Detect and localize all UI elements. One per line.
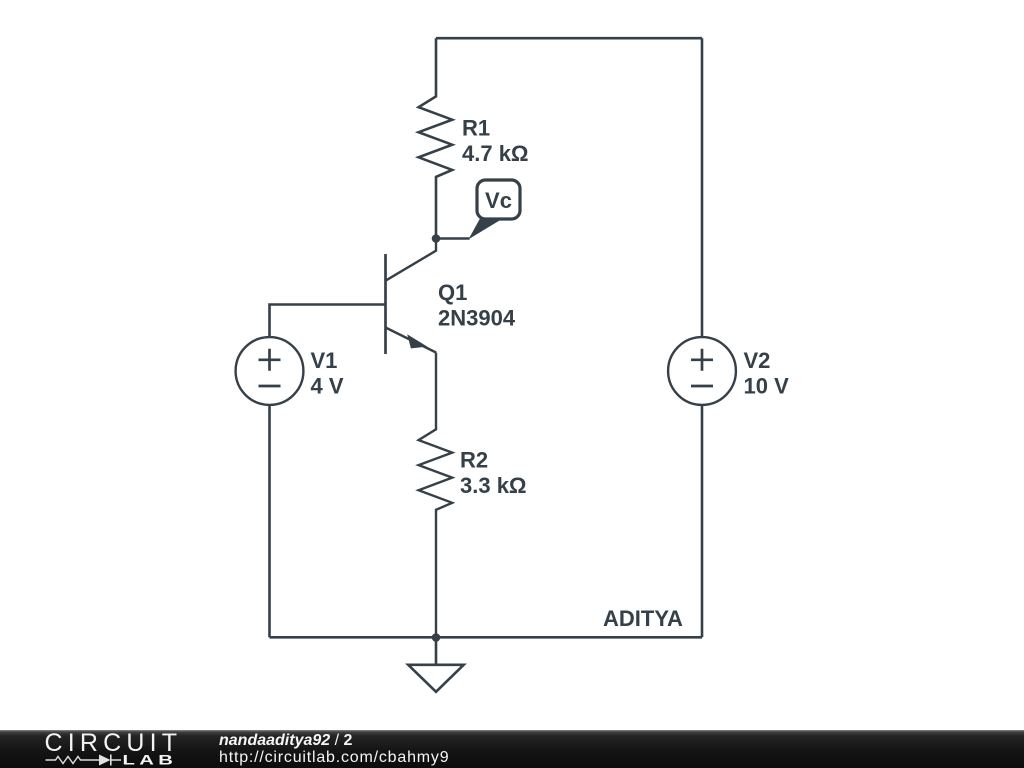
- svg-text:nandaaditya92 / 2: nandaaditya92 / 2: [219, 732, 353, 749]
- wire Vc tag stub: [436, 237, 470, 240]
- svg-text:http://circuitlab.com/cbahmy9: http://circuitlab.com/cbahmy9: [219, 749, 449, 766]
- source V1 circle: [236, 337, 304, 405]
- svg-text:R2: R2: [460, 448, 488, 473]
- ground node junction: [432, 633, 441, 642]
- flag Vc pointer wedge: [469, 219, 500, 240]
- svg-text:V2: V2: [744, 348, 771, 373]
- transistor Q1 emitter lead: [386, 328, 437, 353]
- svg-text:3.3 kΩ: 3.3 kΩ: [460, 473, 527, 498]
- svg-text:4 V: 4 V: [311, 374, 344, 399]
- svg-text:10 V: 10 V: [744, 374, 790, 399]
- wire right rail down to V2 top: [701, 38, 704, 337]
- logo resistor squiggle: [46, 757, 100, 764]
- svg-text:R1: R1: [462, 116, 490, 141]
- wire V1 top up and right to Q1 base: [270, 305, 386, 338]
- source V1 plus sign: [259, 349, 281, 371]
- resistor R2: [419, 353, 453, 638]
- ground symbol: [408, 638, 464, 692]
- source V2 minus sign: [691, 385, 713, 388]
- source V2 circle: [668, 337, 736, 405]
- transistor Q1 emitter arrow: [407, 334, 427, 348]
- svg-text:LAB: LAB: [123, 752, 178, 768]
- logo diode bar: [111, 755, 121, 766]
- wire left rail V1 bottom down to bottom rail: [268, 405, 271, 638]
- svg-text:Vc: Vc: [485, 188, 512, 213]
- source V1 minus sign: [259, 385, 281, 388]
- flag Vc box: [477, 180, 520, 219]
- transistor Q1 body bar: [384, 254, 387, 354]
- svg-text:4.7 kΩ: 4.7 kΩ: [462, 141, 529, 166]
- svg-text:Q1: Q1: [438, 280, 467, 305]
- svg-text:2N3904: 2N3904: [438, 306, 516, 331]
- svg-text:V1: V1: [311, 348, 338, 373]
- svg-text:ADITYA: ADITYA: [603, 606, 683, 631]
- node collector junction: [432, 234, 441, 243]
- logo diode triangle: [99, 755, 111, 766]
- wire top rail from R1 top to V2 branch: [436, 37, 702, 40]
- resistor R1: [419, 38, 453, 238]
- wire V2 bottom to bottom-right corner: [701, 405, 704, 638]
- source V2 plus sign: [691, 349, 713, 371]
- transistor Q1 collector lead: [386, 239, 437, 281]
- wire bottom rail: [270, 636, 703, 639]
- footer bar: [0, 730, 1024, 768]
